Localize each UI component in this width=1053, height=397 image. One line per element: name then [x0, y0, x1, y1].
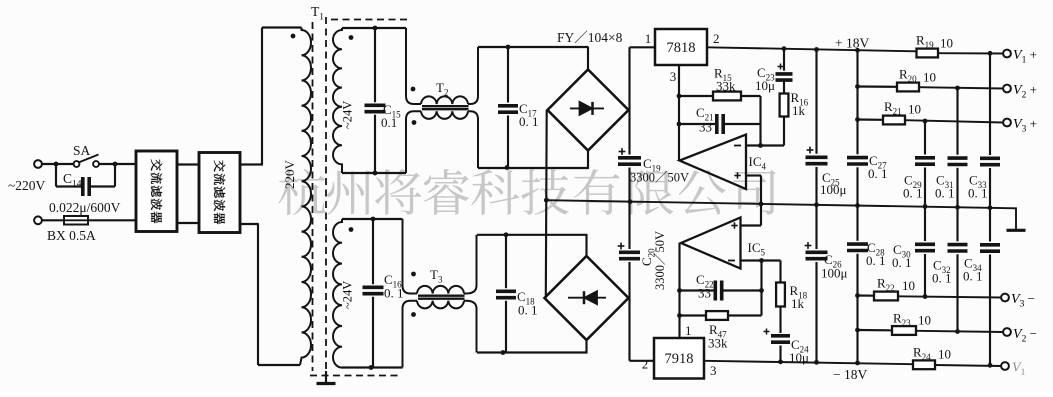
- svg-text:100μ: 100μ: [821, 266, 848, 281]
- resistor R47: [680, 314, 707, 316]
- bridge1 top vertex riser: [587, 47, 589, 70]
- ground rail: [546, 200, 1016, 229]
- svg-text:1: 1: [645, 31, 652, 46]
- capacitor C21: [679, 123, 715, 125]
- T1 core dashed line 2: [325, 17, 327, 371]
- svg-text:0. 1: 0. 1: [935, 186, 955, 201]
- svg-text:FY／104×8: FY／104×8: [557, 30, 623, 45]
- node C17 top: [506, 45, 511, 50]
- svg-text:~24V: ~24V: [341, 101, 355, 129]
- bridge rectifier 1: [548, 70, 629, 151]
- svg-text:33: 33: [699, 120, 712, 135]
- svg-text:0. 1: 0. 1: [868, 166, 888, 181]
- node C24 bottom: [778, 359, 783, 364]
- wire top rail: [342, 27, 406, 29]
- T2 dots: [411, 87, 416, 92]
- node C33 bottom on ground rail: [988, 205, 993, 210]
- IC5 output column to 7918 pin1: [678, 243, 680, 338]
- wire AC bottom rail to bridge: [478, 167, 589, 169]
- svg-text:10μ: 10μ: [755, 78, 775, 93]
- svg-text:0. 1: 0. 1: [384, 286, 404, 301]
- svg-text:10: 10: [908, 102, 921, 117]
- capacitor C33: [989, 53, 991, 155]
- AC filter block 2: [199, 153, 240, 233]
- capacitor C32: [956, 207, 958, 241]
- wire into 7918 pin2: [630, 360, 655, 362]
- wire to T1 primary bottom: [240, 223, 259, 225]
- choke T2: [406, 28, 421, 104]
- wire: [177, 222, 199, 224]
- watermark text: [278, 169, 325, 215]
- capacitor C29: [924, 121, 926, 155]
- capacitor C19: [618, 156, 641, 160]
- svg-text:220V: 220V: [282, 160, 297, 190]
- node R21 tap: [855, 117, 860, 122]
- bridge2 bottom vertex riser: [585, 340, 587, 353]
- capacitor C16: [372, 219, 374, 284]
- capacitor C24: [771, 334, 790, 338]
- node C25 bottom on ground rail: [814, 202, 819, 207]
- T3 dots: [411, 272, 416, 277]
- bridge1 bottom vertex riser: [587, 150, 589, 169]
- shield dashed bottom: [310, 375, 400, 377]
- regulator 7818: [630, 46, 656, 48]
- svg-text:BX 0.5A: BX 0.5A: [47, 228, 96, 243]
- pin3 column: [678, 65, 680, 161]
- node C21 left: [677, 122, 682, 127]
- input terminal L: [34, 160, 42, 168]
- T1 secondary winding bottom: [333, 219, 342, 368]
- svg-text:0.1: 0.1: [381, 115, 397, 130]
- capacitor C23: [776, 72, 793, 76]
- node C33 top: [988, 51, 993, 56]
- primary polarity dot: [291, 34, 296, 39]
- resistor R23 row: [858, 329, 893, 331]
- svg-text:0. 1: 0. 1: [932, 271, 952, 286]
- output V1+: [1003, 50, 1011, 58]
- op-amp IC4: [680, 135, 747, 190]
- node C23 top: [782, 46, 787, 51]
- wire to T1 primary top: [240, 163, 263, 165]
- resistor R22 row: [858, 294, 875, 296]
- resistor R16: [783, 117, 785, 146]
- resistor R18: [779, 261, 781, 283]
- output V3-: [1001, 294, 1009, 302]
- node R20 tap: [855, 84, 860, 89]
- capacitor C20: [619, 251, 640, 255]
- capacitor C27: [856, 50, 858, 154]
- T1 secondary winding top: [333, 28, 342, 173]
- svg-text:0. 1: 0. 1: [518, 303, 538, 318]
- svg-text:7918: 7918: [665, 351, 694, 367]
- op-amp IC5: [681, 218, 741, 269]
- ground symbol: [1007, 229, 1026, 232]
- svg-text:~24V: ~24V: [341, 281, 355, 309]
- wire: [99, 163, 136, 165]
- output V2+: [1003, 85, 1011, 93]
- node C32 bottom on V2- row: [955, 329, 960, 334]
- T1 core dashed line 1: [312, 22, 314, 371]
- capacitor C14: [55, 164, 57, 187]
- svg-text:100μ: 100μ: [820, 182, 847, 197]
- node C15 top: [373, 26, 378, 31]
- ground (shield): [325, 371, 327, 383]
- resistor R19: [917, 49, 939, 58]
- svg-text:3: 3: [670, 69, 677, 84]
- transformer T1 primary winding: [300, 28, 311, 366]
- AC rail C18 top: [477, 234, 588, 236]
- IC4 plus row to ground: [746, 174, 761, 176]
- secondary bottom dot: [349, 227, 354, 232]
- svg-text:10: 10: [938, 347, 951, 362]
- svg-text:− 18V: − 18V: [833, 367, 867, 382]
- svg-text:7818: 7818: [667, 40, 696, 56]
- wire: [42, 163, 79, 165]
- node: [113, 162, 118, 167]
- regulator 7918: [654, 338, 704, 379]
- capacitor C25: [815, 50, 817, 154]
- node C29 bottom on ground rail: [923, 204, 928, 209]
- svg-text:+ 18V: + 18V: [835, 36, 869, 51]
- wire bridge left vertices to mid rail: [545, 110, 548, 298]
- capacitor C15: [374, 28, 376, 102]
- capacitor C26: [815, 205, 817, 249]
- svg-text:10: 10: [940, 36, 953, 51]
- node C28 bottom on -18V rail: [855, 361, 860, 366]
- bridge rectifier 2: [545, 256, 629, 340]
- +18V rail from pin2: [707, 47, 917, 51]
- node C15 bottom: [373, 171, 378, 176]
- svg-text:SA: SA: [73, 143, 91, 158]
- resistor R15: [679, 95, 713, 97]
- svg-text:10: 10: [902, 278, 915, 293]
- svg-text:1k: 1k: [791, 296, 805, 311]
- shield dashed top: [331, 19, 411, 21]
- secondary top dot: [349, 35, 354, 40]
- wire: [177, 163, 199, 165]
- resistor R21 row: [858, 118, 884, 120]
- svg-text:~220V: ~220V: [8, 178, 46, 193]
- svg-text:0. 1: 0. 1: [963, 269, 983, 284]
- svg-text:2: 2: [713, 31, 720, 46]
- capacitor C28: [856, 206, 858, 241]
- capacitor C22: [680, 289, 714, 291]
- node after terminal: [54, 162, 59, 167]
- wire bottom rail: [342, 172, 406, 174]
- bottom secondary rails: [342, 218, 403, 220]
- IC5 minus row: [741, 259, 781, 261]
- fuse BX 0.5A: [42, 219, 137, 221]
- svg-text:0. 1: 0. 1: [519, 114, 539, 129]
- wire rail to C20: [628, 202, 630, 250]
- output V1-: [1001, 362, 1009, 370]
- bridge2 top vertex riser: [585, 235, 587, 257]
- svg-text:33k: 33k: [708, 336, 728, 351]
- resistor R20 row: [858, 85, 898, 87]
- output V2-: [1003, 328, 1011, 336]
- node C30 bottom on V3- row: [923, 294, 928, 299]
- capacitor C17: [507, 47, 509, 103]
- node C26 bottom on -18V rail: [814, 360, 819, 365]
- node C34 bottom on V1- row: [988, 363, 993, 368]
- node on mid rail: [544, 198, 549, 203]
- AC rail C18 bottom: [477, 351, 588, 353]
- svg-text:0. 1: 0. 1: [892, 255, 912, 270]
- AC filter block 1: [136, 151, 177, 232]
- node R22 tap: [855, 293, 860, 298]
- svg-text:33: 33: [698, 286, 711, 301]
- svg-text:3300／50V: 3300／50V: [653, 231, 667, 290]
- switch SA: [74, 161, 80, 167]
- node +18V rail: [814, 47, 819, 52]
- node C27 bottom on ground rail: [855, 203, 860, 208]
- svg-text:2: 2: [642, 357, 649, 372]
- choke T3: [403, 219, 418, 294]
- -18V rail from pin3: [704, 361, 913, 364]
- svg-text:10: 10: [923, 70, 936, 85]
- capacitor C31: [956, 88, 958, 155]
- svg-text:0. 1: 0. 1: [866, 253, 886, 268]
- node C17 bottom: [505, 165, 510, 170]
- node R15 left: [677, 94, 682, 99]
- node C31 bottom on ground rail: [955, 205, 960, 210]
- capacitor C18: [505, 235, 507, 288]
- node opamp+ on rail: [759, 202, 764, 207]
- svg-text:1k: 1k: [792, 103, 806, 118]
- node R23 tap: [855, 328, 860, 333]
- resistor R24 (in -18V rail): [913, 360, 935, 369]
- wire AC top rail to bridge: [478, 46, 589, 48]
- svg-text:3: 3: [710, 363, 717, 378]
- wire 7818 pin1 column: [628, 47, 630, 154]
- IC5 plus row from ground: [760, 204, 762, 226]
- svg-text:10: 10: [918, 313, 931, 328]
- capacitor C34: [989, 208, 991, 242]
- svg-text:0. 1: 0. 1: [968, 186, 988, 201]
- capacitor C30: [924, 207, 926, 242]
- svg-text:33k: 33k: [716, 79, 736, 94]
- IC4 minus row: [746, 144, 784, 146]
- input terminal N: [34, 216, 42, 224]
- svg-text:1: 1: [685, 323, 692, 338]
- node C19 bottom on rail: [628, 199, 633, 204]
- svg-text:0. 1: 0. 1: [903, 186, 923, 201]
- svg-text:0.022μ/600V: 0.022μ/600V: [49, 200, 121, 215]
- output V3+: [1003, 119, 1011, 127]
- svg-text:3300／50V: 3300／50V: [630, 171, 689, 185]
